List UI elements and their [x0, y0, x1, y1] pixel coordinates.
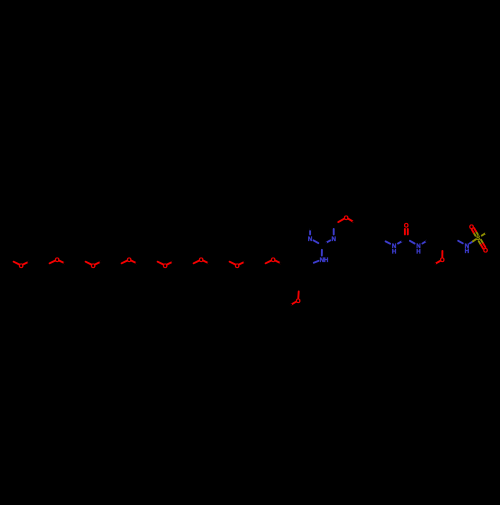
urea carbonyl oxygen — [404, 223, 409, 230]
bond urea C=O line-a (first half) — [407, 234, 409, 239]
sulfonyl oxygen lower — [483, 248, 488, 255]
ring C bond 6 — [357, 225, 360, 239]
bond S=O lower line-b (second half) — [483, 244, 485, 248]
bond PEG chain C15-O16 (second half) — [194, 261, 200, 264]
bond S=O upper line-a (first half) — [476, 231, 478, 234]
svg-text:O: O — [127, 257, 132, 264]
ring C bond 5 — [358, 239, 370, 247]
bond O-CH3 (ringD methoxy) (first half) — [435, 261, 440, 264]
bond ringD-O(methoxy) (first half) — [441, 246, 443, 252]
ring C bond 2 — [371, 218, 383, 226]
ring B bond 1 — [286, 258, 298, 266]
bond O-CH3 (ringB methoxy) (second half) — [286, 305, 291, 308]
bond PEG chain C18-O19 (second half) — [230, 262, 236, 265]
bond pyrimidine ring bond 4 — [322, 218, 334, 225]
svg-text:O: O — [469, 224, 474, 231]
bond NH(urea right)-ringD (first half) — [422, 241, 426, 244]
pyrimidine N3 — [331, 236, 336, 243]
bond PEG chain O16-C17 (first half) — [203, 261, 209, 264]
PEG ether oxygen O8 — [271, 257, 276, 264]
bond PEG chain C21-O22 (second half) — [266, 261, 272, 264]
bond NH(urea right)-ringD (second half) — [426, 239, 430, 241]
bond S=O upper line-b (first half) — [474, 233, 476, 236]
svg-text:O: O — [440, 257, 445, 264]
bond PEG chain O16-C17 (second half) — [208, 263, 213, 266]
svg-text:O: O — [199, 257, 204, 264]
bond ringB-NH(aniline) (second half) — [314, 261, 319, 263]
bond PEG chain C11-C12 — [141, 260, 153, 266]
bond PEG chain C9-O10 (first half) — [117, 263, 122, 266]
bond PEG chain C18-O19 (first half) — [225, 260, 230, 263]
bond S=O upper line-b (second half) — [472, 229, 474, 232]
bond PEG chain C17-C18 — [213, 260, 225, 266]
PEG ether oxygen O3 — [91, 263, 96, 270]
bond ringD-O(methoxy) (second half) — [441, 251, 443, 257]
bond PEG chain O19-C20 (first half) — [239, 262, 245, 265]
bond PEG chain C6-O7 (second half) — [86, 262, 92, 265]
bond urea C=O line-b (second half) — [404, 229, 406, 234]
bond C2-NH(aniline) (first half) — [321, 245, 323, 250]
svg-text:O: O — [55, 257, 60, 264]
bond NH-S bond (first half) — [470, 241, 473, 243]
svg-text:O: O — [19, 263, 24, 270]
bond O-CH3 (ringD methoxy) (second half) — [430, 264, 435, 267]
bond NH(urea left)-C carbonyl (first half) — [398, 241, 403, 244]
PEG ether oxygen O4 — [127, 257, 132, 264]
ring D bond 6 — [430, 239, 442, 246]
PEG ether oxygen O7 — [235, 263, 240, 270]
bond S=O lower line-a (second half) — [481, 245, 483, 249]
bond pyrimidine ring bond 6 (first half) — [326, 240, 331, 243]
bond PEG chain C3-O4 (first half) — [45, 263, 50, 266]
ring B bond 3 — [309, 264, 312, 278]
svg-text:N: N — [331, 236, 336, 243]
bond PEG chain C14-C15 — [177, 260, 189, 266]
sulfur atom S — [476, 235, 480, 242]
bond PEG chain O4-C5 (second half) — [64, 263, 69, 266]
bond pyrimidine ring bond 1 (second half) — [314, 240, 319, 243]
ring B methoxy oxygen — [296, 298, 301, 305]
ring D bond 2 — [430, 218, 442, 225]
svg-text:H: H — [465, 248, 470, 255]
bond ringB-NH(aniline) (first half) — [310, 263, 314, 265]
svg-text:O: O — [235, 263, 240, 270]
svg-text:H: H — [324, 257, 329, 264]
bond PEG chain C8-C9 — [105, 260, 117, 266]
urea right NH — [416, 243, 421, 255]
bond PEG chain O13-C14 (second half) — [172, 260, 177, 263]
ring C bond 3 — [381, 226, 384, 240]
bond ringC-NH(urea left) (first half) — [382, 240, 386, 242]
aryl ether oxygen — [344, 215, 349, 222]
bond PEG chain C0-O1 (first half) — [9, 260, 14, 263]
ring D bond 4 — [454, 225, 456, 239]
bond pyrimidine ring bond 2 (second half) — [309, 225, 311, 230]
svg-text:S: S — [476, 235, 480, 242]
bond PEG chain O1-C2 (second half) — [28, 260, 33, 263]
bond O-CH3 (ringB methoxy) (first half) — [291, 302, 296, 305]
bond PEG chain C2-C3 — [33, 260, 45, 266]
bond PEG chain C21-O22 (first half) — [261, 263, 266, 266]
ring D bond 5 — [442, 239, 454, 246]
bond O8-ringB (second half) — [280, 263, 285, 266]
ring D methoxy oxygen — [440, 257, 445, 264]
bond O(ether)-ringC (second half) — [353, 222, 358, 225]
bond PEG chain O19-C20 (second half) — [244, 260, 249, 263]
bond pyrimidine ring bond 5 (first half) — [333, 225, 335, 230]
PEG ether oxygen O5 — [163, 263, 168, 270]
bond PEG chain O7-C8 (second half) — [100, 260, 105, 263]
bond PEG chain O7-C8 (first half) — [95, 262, 101, 265]
aniline NH label — [320, 257, 329, 264]
svg-text:H: H — [416, 249, 421, 256]
bond C2-NH(aniline) (second half) — [321, 250, 323, 256]
PEG ether oxygen O1 — [19, 263, 24, 270]
bond PEG chain C5-C6 — [69, 260, 81, 266]
bond PEG chain O1-C2 (first half) — [23, 262, 29, 265]
bond PEG chain O13-C14 (first half) — [167, 262, 173, 265]
ring C bond 4 — [370, 240, 383, 247]
bond ringD-NH(sulfonamide) (first half) — [455, 239, 459, 241]
bond ringD-NH(sulfonamide) (second half) — [458, 241, 463, 244]
bond C4-O(ether) (second half) — [338, 219, 344, 222]
bond O(ether)-ringC (first half) — [348, 219, 353, 222]
PEG ether oxygen O6 — [199, 257, 204, 264]
bond PEG chain O4-C5 (first half) — [59, 261, 65, 264]
sulfonyl oxygen upper — [469, 224, 474, 231]
bond pyrimidine ring bond 1 (first half) — [318, 243, 322, 245]
bond PEG chain O10-C11 (second half) — [136, 263, 141, 266]
bond S=O lower line-a (first half) — [479, 241, 481, 245]
bond C carbonyl-NH(urea right) (second half) — [410, 241, 415, 244]
bond O8-ringB (first half) — [275, 261, 281, 264]
bond C carbonyl-NH(urea right) (first half) — [406, 239, 410, 242]
bond ringB-O(methoxy) (second half) — [297, 292, 299, 298]
ring B bond 6 — [285, 266, 288, 280]
bond PEG chain C9-O10 (second half) — [122, 261, 128, 264]
bond pyrimidine ring bond 2 (first half) — [309, 229, 311, 234]
bond S=O upper line-a (second half) — [474, 228, 476, 231]
bond pyrimidine ring bond 6 (second half) — [322, 243, 326, 245]
sulfonamide NH — [465, 243, 470, 255]
urea left NH — [392, 243, 397, 255]
bond PEG chain C12-O13 (first half) — [153, 260, 158, 263]
ring B bond 5 — [286, 280, 299, 287]
bond PEG chain C12-O13 (second half) — [158, 262, 164, 265]
svg-text:N: N — [308, 236, 313, 243]
bond ringB-O(methoxy) (first half) — [298, 286, 300, 292]
svg-text:H: H — [392, 249, 397, 256]
ring C bond 1 — [358, 218, 371, 225]
ring B bond 2 — [298, 258, 311, 265]
bond urea C=O line-a (second half) — [407, 229, 409, 234]
bond PEG chain C0-O1 (second half) — [14, 262, 20, 265]
bond PEG chain C3-O4 (second half) — [50, 261, 56, 264]
svg-text:O: O — [404, 223, 409, 230]
bond PEG chain C15-O16 (first half) — [189, 263, 194, 266]
pyrimidine N1 — [308, 236, 313, 243]
bond C4-O(ether) (first half) — [334, 222, 339, 225]
ring B bond 4 — [299, 279, 311, 287]
bond pyrimidine ring bond 5 (second half) — [333, 229, 335, 234]
svg-text:O: O — [483, 248, 488, 255]
bond PEG chain O10-C11 (first half) — [131, 261, 137, 264]
bond urea C=O line-b (first half) — [404, 234, 406, 239]
bond S-CH3 bond (first half) — [482, 233, 486, 236]
bond PEG chain C20-C21 — [249, 260, 261, 266]
svg-text:O: O — [163, 263, 168, 270]
bond pyrimidine ring bond 3 — [310, 218, 322, 225]
ring D bond 3 — [442, 218, 454, 225]
bond NH-S bond (second half) — [473, 239, 476, 241]
svg-text:O: O — [91, 263, 96, 270]
ring D bond 1 — [429, 225, 431, 239]
bond NH(urea left)-C carbonyl (second half) — [402, 239, 406, 242]
bond ringC-NH(urea left) (second half) — [386, 241, 391, 243]
PEG ether oxygen O2 — [55, 257, 60, 264]
svg-text:O: O — [296, 298, 301, 305]
bond S-CH3 bond (second half) — [486, 231, 490, 234]
bond S=O lower line-b (first half) — [481, 240, 483, 244]
bond PEG chain C6-O7 (first half) — [81, 260, 86, 263]
